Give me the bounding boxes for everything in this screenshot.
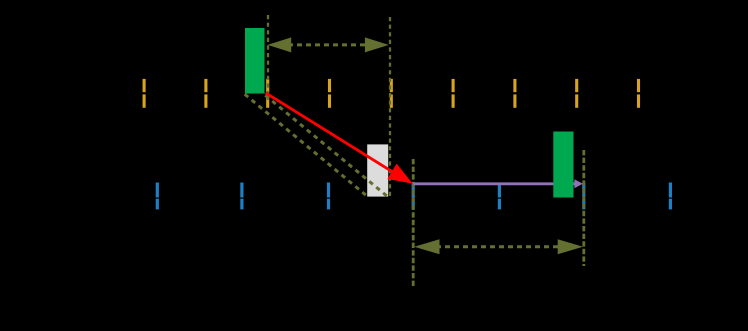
right arrowhead bbox=[365, 37, 389, 52]
tick A3 bbox=[266, 79, 269, 108]
dotted vertical marker line at exposure start (x=267.5) bbox=[267, 15, 269, 100]
tick A5 bbox=[390, 79, 393, 108]
tick B4 bbox=[412, 183, 415, 210]
lower timeline ticks (blue sensor B) bbox=[157, 183, 670, 210]
left arrowhead bbox=[414, 239, 439, 254]
green exposure rectangle 1 (upper timeline) bbox=[245, 28, 265, 94]
tick A9 bbox=[637, 79, 640, 108]
dotted vertical marker line at trigger (x=389.9) bbox=[389, 17, 391, 196]
red timestamp arrow shaft bbox=[266, 93, 395, 173]
tick A4 bbox=[328, 79, 331, 108]
dashed diagonal projection line A (left) bbox=[245, 94, 368, 196]
tick B3 bbox=[327, 183, 330, 210]
lower dashed vertical line (x=413.2) bbox=[412, 159, 415, 288]
upper dashed double-headed arrow (exposure interval) bbox=[268, 37, 389, 52]
upper timeline ticks (orange sensor A) bbox=[144, 79, 638, 108]
red arrowhead bbox=[387, 164, 412, 184]
lower dashed vertical line (x=583.8) bbox=[582, 150, 585, 266]
dashed diagonal projection line B (right) bbox=[265, 95, 388, 197]
tick B1 bbox=[156, 183, 159, 210]
tick A2 bbox=[204, 79, 207, 108]
tick B2 bbox=[240, 183, 243, 210]
green exposure rectangle 2 (lower timeline) bbox=[553, 132, 573, 198]
purple arrowhead bbox=[574, 179, 582, 188]
purple delay line shaft bbox=[413, 182, 575, 185]
tick A8 bbox=[575, 79, 578, 108]
tick B6 bbox=[582, 183, 585, 210]
tick B5 bbox=[498, 184, 501, 209]
tick B7 bbox=[669, 183, 672, 210]
tick A1 bbox=[143, 79, 146, 108]
lower dashed double-headed arrow (delay interval) bbox=[414, 239, 583, 254]
left arrowhead bbox=[268, 37, 292, 52]
tick A7 bbox=[513, 79, 516, 108]
right arrowhead bbox=[558, 239, 583, 254]
gray readout rectangle bbox=[367, 144, 388, 196]
tick A6 bbox=[452, 79, 455, 108]
